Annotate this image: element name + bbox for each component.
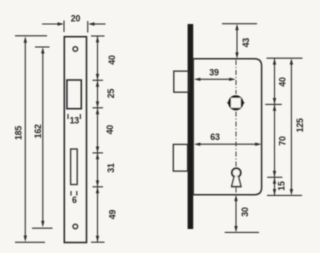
svg-text:20: 20 [71, 14, 81, 24]
spindle hole (square in dark boss) [227, 95, 245, 110]
dimension 20 (faceplate width) [42, 14, 106, 33]
svg-text:63: 63 [210, 132, 220, 142]
dimension 63 (backset to key / body depth) [194, 132, 262, 146]
dimension 43 (top) [222, 24, 257, 59]
right chain dimension line of faceplate [91, 36, 105, 242]
svg-text:25: 25 [106, 89, 116, 99]
lock body outline [193, 59, 261, 195]
svg-text:40: 40 [278, 77, 288, 87]
svg-text:30: 30 [240, 207, 250, 217]
right chain dimension 40/70/15 [265, 58, 302, 195]
dimension 125 (body height) [290, 58, 306, 195]
svg-text:40: 40 [105, 125, 115, 135]
svg-text:162: 162 [33, 124, 43, 138]
latch bolt protruding [174, 71, 189, 92]
faceplate edge-on bar (side view) [188, 24, 194, 229]
svg-text:40: 40 [107, 55, 117, 65]
key slot (6 wide) [71, 149, 78, 185]
vertical centerline (dash-dot) [235, 60, 237, 194]
dimension 6 label with ticks [71, 191, 77, 205]
svg-text:39: 39 [209, 68, 219, 78]
svg-text:70: 70 [278, 136, 288, 146]
svg-text:43: 43 [241, 38, 251, 48]
svg-text:31: 31 [106, 163, 116, 173]
dimension 30 (bottom) [225, 195, 259, 233]
svg-text:185: 185 [14, 126, 24, 140]
svg-text:49: 49 [108, 210, 118, 220]
dimension 185 (overall height) [14, 36, 47, 243]
dimension 39 (backset to spindle) [194, 68, 236, 82]
svg-text:15: 15 [276, 181, 286, 191]
bottom screw hole [73, 224, 78, 229]
svg-text:6: 6 [72, 195, 77, 205]
latch opening (13 wide) [67, 80, 81, 109]
dimension 162 (screw hole centers) [32, 47, 53, 228]
svg-text:13: 13 [70, 116, 80, 126]
svg-text:125: 125 [295, 118, 305, 132]
dead bolt protruding [173, 144, 187, 171]
faceplate front view outline [64, 37, 86, 243]
keyhole [232, 168, 241, 186]
top screw hole [73, 47, 78, 52]
dimension 13 label with ticks [68, 114, 80, 126]
